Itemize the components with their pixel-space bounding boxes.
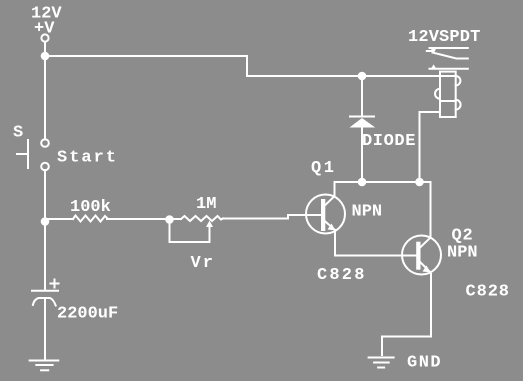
node mid rail diode junction — [358, 178, 367, 187]
svg-text:DIODE: DIODE — [362, 132, 416, 151]
transistor Q2 base bar — [416, 242, 420, 270]
relay armature — [433, 53, 468, 59]
svg-text:12VSPDT: 12VSPDT — [408, 28, 480, 47]
wire terminal to top node — [44, 42, 46, 56]
switch S bottom terminal — [41, 163, 49, 171]
diode DIODE triangle — [350, 118, 376, 128]
wire left rail down to switch — [44, 56, 46, 140]
diode DIODE cathode bar — [350, 116, 374, 118]
node mid rail relay junction — [415, 178, 424, 187]
wire pot to Q1 base — [223, 215, 321, 219]
wire mid rail — [335, 182, 431, 238]
relay contact tick — [427, 50, 432, 52]
wire wiper loop — [170, 219, 210, 242]
svg-text:2200uF: 2200uF — [57, 305, 118, 324]
transistor Q2 emitter arrow — [423, 266, 431, 273]
capacitor 2200uF plus sign — [51, 283, 59, 285]
svg-text:NPN: NPN — [447, 244, 478, 263]
transistor Q1 base bar — [321, 199, 325, 231]
relay contact throw B — [430, 68, 468, 70]
svg-text:1M: 1M — [196, 195, 216, 214]
svg-text:Start: Start — [57, 149, 118, 168]
wire Q1 emitter to Q2 base — [335, 230, 416, 256]
node pot junction — [165, 215, 174, 224]
svg-text:GND: GND — [407, 354, 442, 373]
wire switch to left node — [44, 170, 46, 290]
ground left — [30, 360, 59, 362]
transistor Q1 circle — [306, 195, 345, 234]
node left junction — [41, 217, 50, 226]
wire coil bottom to mid rail — [420, 112, 441, 182]
ground right — [369, 357, 394, 359]
resistor 100k — [73, 216, 107, 222]
relay contact arrow up — [431, 64, 437, 69]
relay coil bump right 1 — [456, 76, 461, 85]
wire node to pot — [170, 218, 182, 220]
svg-text:C828: C828 — [317, 266, 367, 285]
svg-text:S: S — [13, 124, 23, 143]
svg-text:Q1: Q1 — [311, 159, 336, 178]
svg-text:C828: C828 — [466, 283, 510, 302]
svg-text:+V: +V — [34, 20, 55, 39]
wire capacitor to ground — [44, 298, 46, 359]
relay contact throw A — [430, 47, 468, 49]
relay coil bump left — [435, 89, 440, 99]
switch S top terminal — [41, 139, 49, 147]
wire Q2 emitter to ground — [382, 274, 431, 355]
transistor Q2 emitter — [421, 263, 430, 272]
svg-text:Vr: Vr — [191, 254, 215, 273]
svg-text:100k: 100k — [70, 198, 111, 217]
transistor Q2 circle — [402, 236, 441, 275]
svg-text:NPN: NPN — [352, 203, 383, 222]
switch S plunger — [27, 140, 29, 168]
transistor Q1 emitter arrow — [328, 224, 336, 231]
pot wiper arrow — [206, 221, 213, 228]
wire top rail horizontal — [45, 56, 456, 76]
transistor Q1 emitter — [325, 222, 335, 230]
transistor Q2 collector — [421, 238, 431, 248]
potentiometer 1M — [181, 216, 223, 221]
relay contact arrow down — [430, 48, 437, 54]
node top-left junction — [41, 52, 50, 61]
relay coil bump right 2 — [456, 100, 461, 110]
node diode top junction — [358, 72, 367, 81]
wire top node to diode — [361, 76, 363, 115]
wire node to resistor — [45, 218, 73, 220]
wire resistor to pot node — [107, 218, 170, 220]
relay coil body — [440, 72, 456, 117]
capacitor 2200uF top plate — [32, 290, 58, 292]
transistor Q1 collector — [325, 182, 334, 205]
capacitor 2200uF bottom plate — [33, 298, 56, 306]
wire diode to mid rail — [361, 128, 363, 183]
